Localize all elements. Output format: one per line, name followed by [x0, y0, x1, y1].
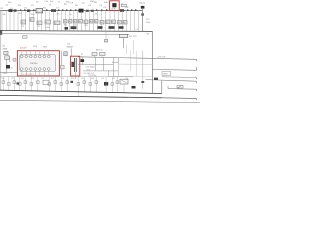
diode D6	[81, 59, 85, 62]
bottom row wire ticks	[3, 77, 124, 97]
wire output 4 horizontal	[146, 80, 197, 82]
svg-text:R21: R21	[2, 78, 5, 80]
highlight box around IC2	[17, 51, 59, 76]
wire faint vertical x126	[125, 45, 127, 55]
diode D14 on line	[154, 78, 158, 80]
svg-text:1u: 1u	[64, 21, 66, 23]
component row mid level	[21, 18, 127, 25]
svg-text:C35: C35	[101, 78, 104, 80]
wire vertical x118 down	[117, 62, 119, 76]
svg-text:1u: 1u	[95, 21, 97, 23]
svg-text:C23 470u: C23 470u	[88, 75, 96, 77]
wire diode D4 vertical	[142, 9, 144, 32]
filter block FL1	[36, 9, 43, 13]
op-amp U1 body	[20, 54, 56, 71]
capacitor C17 under bus	[23, 36, 28, 39]
tick line 2 end	[195, 98, 197, 100]
svg-text:C22 1000u: C22 1000u	[86, 66, 95, 68]
svg-text:7805: 7805	[43, 47, 47, 49]
bus bottom line 2	[0, 95, 162, 97]
svg-text:D11: D11	[21, 78, 24, 80]
bus bottom line 1	[0, 90, 162, 93]
svg-text:470u: 470u	[45, 27, 49, 29]
capacitor C42 blob	[132, 86, 136, 89]
switch S2 box	[177, 85, 183, 88]
wire horizontal y64 right	[118, 63, 152, 65]
wire D6 top	[81, 57, 83, 59]
resistor R4	[51, 9, 56, 12]
connector X1	[4, 51, 8, 54]
svg-text:RL1 12V: RL1 12V	[129, 36, 137, 38]
bottom row labels	[2, 78, 129, 80]
junction left edge	[0, 30, 2, 35]
svg-text:T2: T2	[81, 54, 83, 56]
capacitor C14 C15 C16 row above bus	[98, 26, 103, 29]
tick output 3	[195, 78, 197, 80]
wire bottom-left horizontal	[0, 71, 17, 73]
wire output 2 horizontal	[152, 68, 196, 71]
wire cap branch 2	[102, 57, 104, 70]
highlight box around D3	[110, 1, 120, 11]
capacitor C20	[64, 52, 67, 56]
wire IC4 tick	[101, 56, 103, 58]
regulator IC3 box	[92, 52, 97, 55]
wire output 3 horizontal	[162, 76, 196, 79]
diode D15 dark	[71, 81, 74, 83]
svg-text:1k: 1k	[70, 14, 72, 16]
fuse F2	[5, 56, 9, 60]
diode D10 left column	[6, 65, 10, 69]
wire cap branch 3	[112, 58, 114, 77]
wire junction ticks on rail	[20, 9, 136, 10]
wire switch riser	[167, 86, 169, 89]
svg-text:1u: 1u	[79, 21, 81, 23]
capacitor C13 tick	[141, 13, 144, 15]
svg-text:22n: 22n	[8, 2, 11, 4]
capacitor C12	[122, 4, 127, 7]
wire D6 bottom	[81, 62, 83, 65]
svg-text:1u: 1u	[30, 20, 32, 22]
transformer T2 winding left	[73, 58, 75, 72]
svg-text:22k: 22k	[57, 14, 60, 16]
svg-text:230V~: 230V~	[3, 73, 9, 75]
svg-text:1u: 1u	[54, 23, 56, 25]
wire fuse drop	[6, 59, 8, 72]
svg-text:1u: 1u	[45, 22, 47, 24]
IC2 pin pads top	[21, 55, 51, 58]
svg-text:C31: C31	[11, 78, 14, 80]
svg-text:1u: 1u	[118, 22, 120, 24]
wire cap branch 1	[94, 57, 96, 70]
svg-text:1u: 1u	[123, 22, 125, 24]
svg-text:1u: 1u	[90, 21, 92, 23]
mid box value texts	[21, 20, 125, 25]
wire mid return	[78, 64, 113, 66]
wire faint grid horizontal	[108, 75, 152, 77]
regulator IC4 box	[100, 52, 106, 55]
svg-text:1u: 1u	[74, 21, 76, 23]
wire rectifier return	[83, 70, 118, 72]
resistor R9	[120, 9, 124, 12]
svg-text:C3: C3	[21, 26, 23, 28]
relay K1 outline	[43, 80, 49, 84]
wire R13 tick	[105, 31, 107, 40]
bus line lower	[0, 34, 129, 35]
relay RL2 contacts	[122, 80, 127, 83]
svg-text:R28: R28	[91, 78, 94, 80]
resistor R8	[91, 10, 94, 12]
relay RL2	[120, 79, 128, 84]
bus bottom line 2 right segment	[162, 97, 197, 100]
svg-text:1u: 1u	[37, 23, 39, 25]
IC2 pin ticks bottom	[22, 70, 49, 76]
wire faint grid verticals	[130, 51, 136, 77]
wire bottom band rail	[0, 76, 133, 78]
svg-text:R25: R25	[51, 78, 54, 80]
svg-text:+12V OUT: +12V OUT	[157, 57, 167, 59]
wire secondary horizontal	[78, 57, 196, 60]
svg-text:R11: R11	[64, 25, 67, 27]
bus bottom line 3	[0, 100, 200, 102]
tick output 1	[195, 59, 197, 61]
svg-text:1 2 3 4 5 6 7 8: 1 2 3 4 5 6 7 8	[22, 74, 34, 76]
resistor R6	[86, 10, 89, 12]
svg-text:AA 7.05: AA 7.05	[96, 49, 103, 52]
svg-text:230V: 230V	[3, 48, 8, 50]
bus line upper	[0, 30, 153, 33]
tick output 2	[195, 67, 197, 70]
svg-text:10k: 10k	[3, 14, 6, 16]
wire left column branch	[9, 56, 11, 62]
wire vertical right main	[151, 31, 153, 93]
svg-text:VENT: VENT	[163, 74, 169, 76]
diode D12 dark	[17, 82, 20, 84]
inductor L1	[27, 10, 30, 12]
resistor R13	[104, 40, 107, 42]
svg-text:+5V GND OUT: +5V GND OUT	[83, 73, 94, 75]
transistor Q1	[79, 9, 84, 13]
tick output 4	[195, 81, 197, 83]
svg-text:D4 Z5: D4 Z5	[140, 2, 146, 4]
diode D3	[112, 3, 116, 7]
svg-text:1u: 1u	[100, 22, 102, 24]
tick output 5	[195, 89, 197, 91]
switch S2 lever	[178, 85, 182, 88]
transformer T2 core	[71, 62, 74, 67]
svg-text:1u: 1u	[21, 22, 23, 24]
transformer T2 winding right	[75, 58, 77, 72]
capacitor C2	[14, 9, 17, 11]
wire IC3 tick	[94, 56, 96, 58]
svg-text:C10: C10	[74, 25, 77, 27]
wire branch x108	[107, 70, 109, 76]
wire corner node B	[112, 61, 118, 63]
svg-text:C6: C6	[37, 26, 39, 28]
svg-text:C34: C34	[81, 78, 84, 80]
svg-text:C32: C32	[41, 78, 44, 80]
capacitor C18 above bus	[65, 27, 69, 30]
svg-text:220n: 220n	[146, 22, 150, 24]
diode D4	[141, 6, 145, 9]
svg-text:C 40: C 40	[44, 1, 48, 3]
relay RL1 coil	[120, 34, 128, 37]
svg-text:4n7: 4n7	[19, 13, 22, 15]
svg-text:100n: 100n	[31, 14, 35, 16]
svg-text:4148: 4148	[111, 9, 115, 11]
resistor R1	[9, 9, 13, 12]
wire vertical node A	[61, 51, 63, 77]
varistor VR1	[13, 59, 16, 62]
wire output 5 horizontal	[168, 88, 196, 91]
svg-text:S3F880: S3F880	[30, 63, 38, 65]
bottom row components	[2, 81, 119, 85]
svg-text:R12: R12	[84, 25, 87, 27]
svg-text:47k: 47k	[95, 14, 98, 16]
svg-text:1u: 1u	[112, 22, 114, 24]
capacitor C19 above bus	[71, 26, 77, 29]
svg-text:1u: 1u	[84, 22, 86, 24]
wire main horizontal supply rail	[0, 10, 142, 12]
capacitor C40 polarized	[104, 82, 108, 86]
IC2 pin pads bottom	[21, 68, 51, 71]
IC2 pin ticks top	[22, 51, 49, 56]
svg-text:defekt?: defekt?	[20, 47, 27, 50]
capacitor C21	[61, 66, 65, 69]
wire D5 vertical	[70, 49, 72, 57]
svg-text:1u: 1u	[106, 22, 108, 24]
wire T2 secondary exit	[74, 72, 76, 79]
svg-text:1N4007: 1N4007	[67, 47, 74, 49]
svg-text:R26: R26	[71, 78, 74, 80]
wire relay branch vertical	[122, 38, 124, 48]
svg-text:1u: 1u	[69, 21, 71, 23]
capacitor C41	[141, 81, 144, 83]
svg-text:C9: C9	[136, 29, 138, 31]
wire vertical x142	[142, 51, 144, 89]
wire left edge vertical bus	[0, 11, 2, 91]
highlight box around T2	[71, 56, 80, 76]
wire vertical drops top band	[2, 11, 139, 31]
wire faint vertical x133	[133, 40, 135, 54]
label box VENTIL	[162, 71, 171, 75]
wire step vertical	[161, 81, 163, 94]
